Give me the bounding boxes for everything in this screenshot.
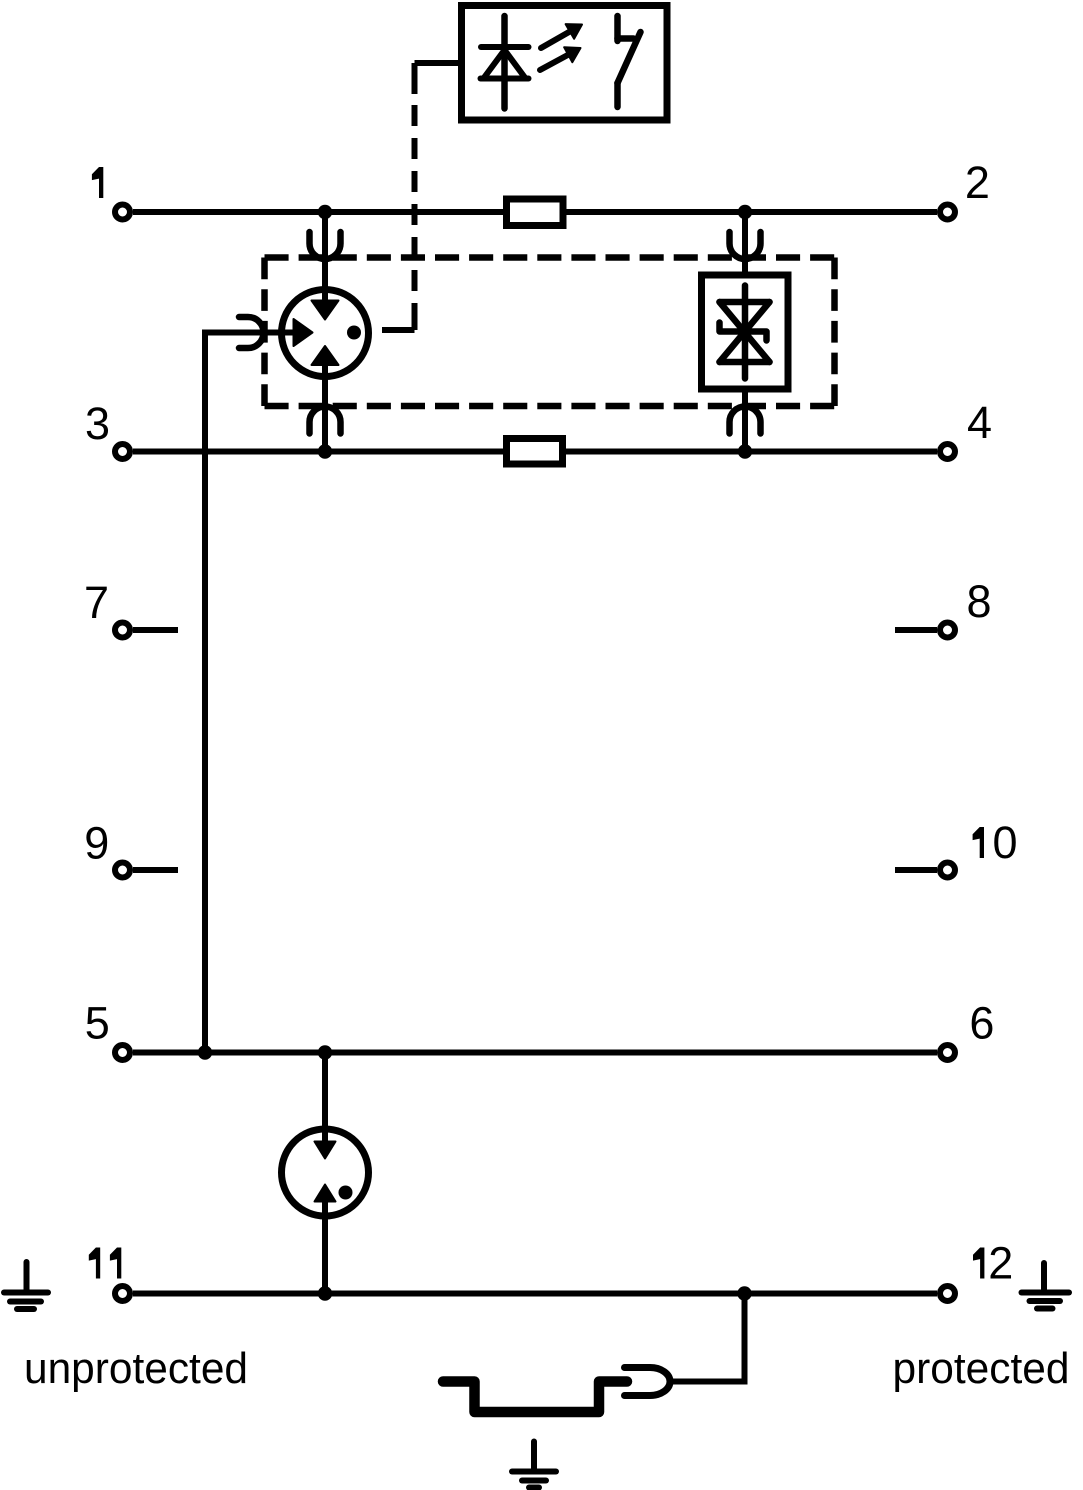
GDT F1 gas dot xyxy=(347,326,361,340)
plug contact at line 1 xyxy=(310,232,341,259)
suppressor F2 top bar xyxy=(720,299,770,306)
junction on line 1 at GDT F1 xyxy=(318,205,332,219)
suppressor F2 bottom bar xyxy=(720,359,770,366)
remote signalling contact box U1 xyxy=(462,6,668,121)
GDT F1 bottom electrode arrow xyxy=(312,346,339,365)
wire line 11 to 12 xyxy=(133,1291,937,1297)
resistor R1 xyxy=(507,199,564,226)
junction on line 3 at suppressor xyxy=(738,444,752,458)
LED D1 anode bar xyxy=(481,76,529,82)
terminal 6 xyxy=(940,1045,955,1060)
LED D1 light arrow 1 xyxy=(541,24,582,48)
LED D1 cathode lead xyxy=(501,16,508,109)
junction on line 11 at DIN rail riser xyxy=(737,1286,751,1300)
svg-text:2: 2 xyxy=(965,157,990,208)
resistor R2 xyxy=(507,439,563,465)
plug contact at line 3 right (suppressor) xyxy=(730,406,761,433)
plug contact at GDT F1 left electrode xyxy=(239,317,264,348)
LED D1 light arrow 2 xyxy=(540,47,581,70)
switch S1 contact foot xyxy=(618,35,634,42)
terminal 3 xyxy=(115,444,130,459)
terminal 10 xyxy=(940,863,955,878)
GDT F1 left electrode arrow xyxy=(294,319,313,346)
GDT F1 top electrode arrow xyxy=(312,301,339,320)
wire stub terminal 10 xyxy=(895,867,937,873)
dashed plug-in module outline xyxy=(265,258,835,407)
wire branch from GDT F1 left electrode down to line 5 xyxy=(205,333,296,1053)
terminal 9 xyxy=(115,863,130,878)
svg-text:2: 2 xyxy=(988,1238,1013,1289)
wire line 5 to 6 xyxy=(133,1050,937,1056)
switch S1 top lead xyxy=(614,16,621,41)
LED D1 cathode bar xyxy=(481,44,529,50)
svg-text:4: 4 xyxy=(967,397,992,448)
gas discharge tube F3 body xyxy=(282,1129,369,1216)
wire line 11 to DIN rail clip riser xyxy=(668,1294,745,1382)
terminal label 11 xyxy=(89,1248,122,1279)
svg-text:3: 3 xyxy=(85,398,110,449)
terminal 7 xyxy=(115,623,130,638)
suppressor F2 diagonal 1 xyxy=(720,302,770,362)
GDT F1 left electrode wire xyxy=(262,330,296,336)
terminal 5 xyxy=(115,1045,130,1060)
terminal 4 xyxy=(940,444,955,459)
GDT F3 bottom electrode arrow xyxy=(315,1185,336,1202)
plug contact at line 3 xyxy=(310,406,341,433)
svg-text:8: 8 xyxy=(967,576,992,627)
GDT F3 top electrode wire xyxy=(322,1053,328,1143)
ground symbol at DIN rail xyxy=(512,1442,556,1488)
svg-text:5: 5 xyxy=(85,998,110,1049)
suppressor F2 vertical lead xyxy=(742,286,749,379)
GDT F3 bottom electrode wire xyxy=(322,1202,328,1294)
junction on line 5 at branch xyxy=(198,1045,212,1059)
wire line 1 to 2 xyxy=(133,209,937,215)
GDT F1 top electrode wire xyxy=(322,212,328,303)
suppressor F2 zener bar with hooks xyxy=(720,323,767,341)
ground symbol at terminal 11 xyxy=(4,1262,48,1309)
svg-text:protected: protected xyxy=(893,1344,1070,1393)
dashed control wire from signalling box to GDT F1 xyxy=(382,63,458,330)
svg-text:7: 7 xyxy=(84,577,109,628)
plug contact at line 1 right (suppressor) xyxy=(730,232,761,259)
terminal label 10 xyxy=(973,817,1018,868)
terminal 11 xyxy=(115,1286,130,1301)
GDT F3 gas dot xyxy=(339,1186,353,1200)
svg-text:unprotected: unprotected xyxy=(24,1344,248,1393)
svg-text:6: 6 xyxy=(969,998,994,1049)
suppressor diode box F2 xyxy=(702,275,789,389)
GDT F3 top electrode arrow xyxy=(315,1142,336,1159)
GDT F1 bottom electrode wire xyxy=(322,363,328,452)
terminal 12 xyxy=(940,1286,955,1301)
terminal label 12 xyxy=(973,1238,1013,1289)
junction on line 3 at GDT F1 xyxy=(318,444,332,458)
terminal 1 xyxy=(115,205,130,220)
terminal label 1 xyxy=(92,167,103,198)
terminal 2 xyxy=(940,205,955,220)
DIN rail clip contact xyxy=(625,1368,671,1396)
DIN rail mounting foot xyxy=(443,1382,627,1413)
wire line 3 to 4 xyxy=(133,449,937,455)
switch S1 blade xyxy=(618,32,641,83)
wire stub terminal 7 xyxy=(133,627,178,633)
suppressor F2 diagonal 2 xyxy=(720,302,770,362)
wire stub terminal 8 xyxy=(895,627,937,633)
wire stub terminal 9 xyxy=(133,867,178,873)
junction on line 5 at GDT F3 xyxy=(318,1045,332,1059)
switch S1 bottom lead xyxy=(614,83,621,107)
junction on line 1 at suppressor xyxy=(738,205,752,219)
ground symbol at terminal 12 xyxy=(1022,1263,1070,1309)
wire suppressor top to line 1 xyxy=(742,212,748,272)
LED D1 triangle xyxy=(485,50,525,77)
junction on line 11 at GDT F3 xyxy=(318,1286,332,1300)
svg-text:0: 0 xyxy=(993,817,1018,868)
terminal 8 xyxy=(940,623,955,638)
svg-text:9: 9 xyxy=(84,818,109,869)
gas discharge tube F1 (3-electrode) body xyxy=(282,290,369,377)
wire suppressor bottom to line 3 xyxy=(742,392,748,452)
